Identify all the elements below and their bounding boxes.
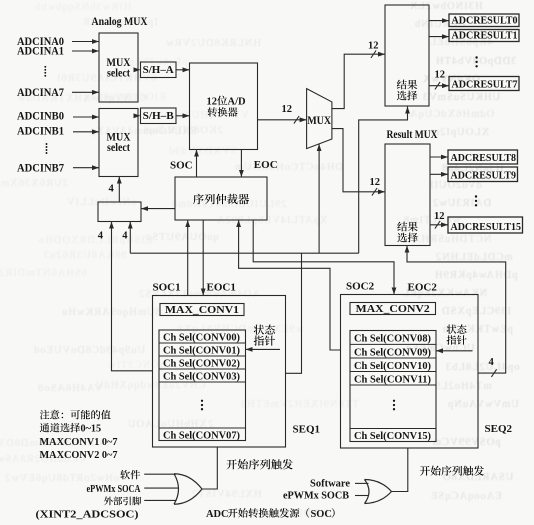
svg-text:ADCINA7: ADCINA7 bbox=[17, 87, 64, 99]
wire ePWMx SOCB input to OR gate 2 bbox=[355, 495, 369, 497]
label SEQ1 bbox=[293, 424, 321, 436]
label EOC2 bbox=[408, 282, 438, 294]
svg-text:ADCINA1: ADCINA1 bbox=[17, 46, 64, 58]
wire OR1 output to SEQ1 bbox=[202, 447, 217, 489]
wire S/H-B to converter bbox=[176, 113, 190, 118]
or-gate OR2 SEQ2 trigger bbox=[365, 480, 392, 504]
svg-text:EOC2: EOC2 bbox=[408, 282, 438, 294]
svg-text:SOC: SOC bbox=[311, 509, 332, 520]
wire H1 to channel select box with 4 bbox=[128, 222, 133, 254]
wire state pointer SEQ2 arrow bbox=[436, 348, 473, 353]
svg-text:SOC1: SOC1 bbox=[153, 282, 181, 294]
label SOC2 bbox=[346, 281, 375, 293]
wire result select to ADCRESULT1 bbox=[429, 34, 449, 39]
wire ADCINB1 input arrow bbox=[73, 129, 99, 134]
wire OR2 output to SEQ2 bbox=[392, 448, 408, 492]
svg-text:Ch Sel(CONV11): Ch Sel(CONV11) bbox=[354, 374, 431, 385]
label start sequence trigger SEQ1 bbox=[226, 459, 292, 469]
wire EOC1 arbiter to SEQ1 bbox=[201, 220, 206, 296]
svg-text:MAXCONV2 0~7: MAXCONV2 0~7 bbox=[40, 450, 118, 461]
label 12 bus to ADCRESULT7 bbox=[435, 70, 446, 81]
svg-text:ADCRESULT0: ADCRESULT0 bbox=[452, 15, 518, 27]
block analog MUX channel select register bbox=[98, 202, 141, 222]
label EOC bbox=[254, 159, 278, 171]
svg-text:4: 4 bbox=[122, 231, 128, 242]
svg-text:ADCINB0: ADCINB0 bbox=[17, 111, 64, 123]
svg-text:Ch Sel(CONV01): Ch Sel(CONV01) bbox=[163, 345, 240, 356]
wire ADCINB0 input arrow bbox=[73, 115, 99, 120]
svg-text:4: 4 bbox=[489, 357, 495, 368]
label Software trigger input SEQ2 bbox=[310, 478, 350, 489]
register ADCRESULT0 bbox=[449, 14, 519, 27]
svg-text:MAXCONV1 0~7: MAXCONV1 0~7 bbox=[40, 437, 118, 448]
block SEQ1 sequencer bbox=[153, 296, 286, 448]
row Ch Sel(CONV07) bbox=[163, 430, 240, 441]
wire result select to ADCRESULT8 bbox=[430, 155, 448, 160]
label 12 bus width converter output bbox=[282, 104, 293, 115]
wire SEQ1 left to channel select box with 4 bbox=[109, 222, 152, 371]
svg-text:Ch Sel(CONV03): Ch Sel(CONV03) bbox=[163, 371, 240, 382]
register ADCRESULT1 bbox=[449, 30, 519, 42]
dots result registers 8-15 ellipsis bbox=[475, 195, 477, 206]
svg-text:ePWMx SOCB: ePWMx SOCB bbox=[283, 491, 349, 502]
wire SEQ2 pointer to result select 2 with 4 bbox=[405, 246, 506, 377]
input label ADCINB1 bbox=[17, 126, 64, 138]
svg-text:Ch Sel(CONV08): Ch Sel(CONV08) bbox=[354, 334, 431, 345]
input label ADCINA7 bbox=[17, 87, 64, 99]
block result select 1 bbox=[385, 5, 429, 106]
svg-text:12: 12 bbox=[368, 41, 379, 52]
svg-text:4: 4 bbox=[109, 184, 115, 195]
register MAX_CONV1 bbox=[160, 304, 244, 317]
svg-text:Ch Sel(CONV10): Ch Sel(CONV10) bbox=[354, 361, 431, 372]
svg-text:Result MUX: Result MUX bbox=[387, 129, 439, 141]
svg-text:ADCRESULT1: ADCRESULT1 bbox=[452, 30, 518, 42]
note possible values bbox=[40, 410, 111, 420]
svg-text:SEQ2: SEQ2 bbox=[485, 423, 513, 435]
wire S/H-A to converter bbox=[176, 67, 190, 72]
wire result select to ADCRESULT0 bbox=[429, 18, 449, 23]
row Ch Sel(CONV11) bbox=[354, 374, 431, 385]
label state pointer SEQ1 bbox=[254, 325, 275, 346]
label SOC bbox=[170, 160, 193, 172]
label 12 bus to result select 2 bbox=[370, 177, 381, 188]
register ADCRESULT7 bbox=[449, 77, 519, 91]
wire channel select bus H1 bbox=[130, 252, 358, 254]
svg-text:EOC: EOC bbox=[254, 159, 278, 171]
svg-text:MUX: MUX bbox=[307, 115, 332, 127]
label ePWMx SOCB trigger input bbox=[283, 491, 349, 502]
dots SEQ2 channel rows ellipsis bbox=[393, 400, 395, 411]
svg-text:Software: Software bbox=[310, 478, 350, 489]
svg-text:ePWMx SOCA: ePWMx SOCA bbox=[87, 484, 142, 495]
wire ADCINB7 input arrow bbox=[73, 165, 99, 170]
row Ch Sel(CONV10) bbox=[354, 361, 431, 372]
svg-text:S/H–B: S/H–B bbox=[143, 111, 174, 122]
wire ADCINA7 input arrow bbox=[72, 90, 99, 95]
wire MUX select A to S/H-A arrow bbox=[134, 67, 141, 72]
block S/H-B sample and hold bbox=[141, 108, 177, 124]
svg-text:ADCRESULT7: ADCRESULT7 bbox=[452, 79, 518, 91]
block channel select table SEQ1 bbox=[159, 330, 246, 441]
svg-text:select: select bbox=[107, 68, 130, 80]
svg-text:Ch Sel(CONV15): Ch Sel(CONV15) bbox=[354, 431, 431, 442]
block SEQ2 sequencer bbox=[341, 295, 479, 449]
svg-text:Ch Sel(CONV07): Ch Sel(CONV07) bbox=[163, 430, 240, 441]
label XINT2_ADCSOC pin name bbox=[36, 510, 139, 521]
label SEQ2 bbox=[485, 423, 513, 435]
label state pointer SEQ2 bbox=[447, 324, 467, 344]
block S/H-A sample and hold bbox=[141, 62, 177, 78]
wire arbiter to channel select box arrow bbox=[141, 206, 175, 211]
wire result select to ADCRESULT9 bbox=[430, 172, 448, 177]
register MAX_CONV2 bbox=[350, 303, 436, 316]
wire software input to OR gate 1 bbox=[144, 473, 176, 475]
svg-text:SEQ1: SEQ1 bbox=[293, 424, 321, 436]
svg-text:A/D: A/D bbox=[228, 97, 247, 108]
wire MUX to result select 1 with 12 bus bbox=[332, 50, 385, 108]
svg-text:ADCRESULT8: ADCRESULT8 bbox=[451, 152, 517, 164]
wire SOC1 SEQ1 to arbiter bbox=[185, 220, 190, 296]
label Result MUX title bbox=[387, 129, 439, 141]
svg-text:ADCINB7: ADCINB7 bbox=[17, 162, 64, 174]
label start sequence trigger SEQ2 bbox=[420, 466, 484, 476]
svg-text:SOC: SOC bbox=[170, 160, 193, 172]
note channel select range bbox=[40, 423, 101, 435]
note MAXCONV2 range bbox=[40, 450, 118, 461]
input label ADCINB0 bbox=[17, 111, 64, 123]
svg-text:12: 12 bbox=[434, 211, 445, 222]
wire MUX select B to S/H-B arrow bbox=[134, 113, 141, 118]
register ADCRESULT9 bbox=[448, 167, 518, 182]
label 4 bus right into channel select box bbox=[122, 231, 128, 242]
wire MUX to result select 2 with 12 bus bbox=[332, 129, 385, 196]
dots SEQ1 channel rows ellipsis bbox=[201, 400, 203, 411]
block result select 2 bbox=[385, 144, 430, 246]
block MUX select A bbox=[99, 33, 138, 102]
wire EOC2 arbiter to SEQ2 bbox=[253, 220, 396, 295]
svg-text:MAX_CONV1: MAX_CONV1 bbox=[165, 305, 239, 316]
label 4 bus SEQ2 pointer bbox=[489, 357, 495, 368]
register ADCRESULT15 bbox=[448, 217, 523, 233]
wire H1 up to result select 1 bbox=[359, 107, 410, 254]
register ADCRESULT8 bbox=[448, 150, 518, 164]
wire converter 12-bit output to result MUX bbox=[258, 116, 307, 124]
row Ch Sel(CONV09) bbox=[354, 347, 431, 358]
dots analog A inputs ellipsis bbox=[44, 66, 46, 77]
svg-text:Ch Sel(CONV00): Ch Sel(CONV00) bbox=[163, 332, 240, 343]
label 12 bus to ADCRESULT15 bbox=[434, 211, 445, 222]
label external pin trigger input bbox=[104, 497, 141, 506]
svg-text:Ch Sel(CONV02): Ch Sel(CONV02) bbox=[163, 358, 240, 369]
dots analog B inputs ellipsis bbox=[46, 143, 48, 154]
dots result registers 0-7 ellipsis bbox=[475, 56, 477, 67]
row Ch Sel(CONV15) bbox=[354, 431, 431, 442]
svg-text:4: 4 bbox=[98, 231, 104, 242]
wire channel select to MUX select input bbox=[317, 144, 322, 253]
svg-text:Ch Sel(CONV09): Ch Sel(CONV09) bbox=[354, 347, 431, 358]
svg-text:select: select bbox=[107, 142, 130, 154]
svg-text:ADC: ADC bbox=[206, 509, 229, 520]
svg-text:12: 12 bbox=[282, 104, 293, 115]
svg-text:Analog MUX: Analog MUX bbox=[92, 14, 148, 28]
row Ch Sel(CONV03) bbox=[163, 371, 240, 382]
input label ADCINA1 bbox=[17, 46, 64, 58]
wire result select to ADCRESULT15 bbox=[430, 221, 448, 229]
label Analog MUX title bbox=[92, 14, 148, 28]
wire channel select box to MUX select B bbox=[117, 177, 122, 203]
svg-text:S/H–A: S/H–A bbox=[143, 65, 175, 76]
svg-text:0~15: 0~15 bbox=[81, 424, 102, 435]
or-gate OR1 SEQ1 trigger bbox=[174, 474, 202, 505]
svg-text:MAX_CONV2: MAX_CONV2 bbox=[356, 304, 430, 315]
wire Software input to OR gate 2 bbox=[355, 482, 369, 484]
wire external pin input to OR gate 1 bbox=[144, 499, 176, 501]
svg-text:SOC2: SOC2 bbox=[346, 281, 375, 293]
svg-text:EOC1: EOC1 bbox=[207, 282, 236, 294]
block channel select table SEQ2 bbox=[350, 331, 436, 442]
label 4 bus left into channel select box bbox=[98, 231, 104, 242]
wire state pointer SEQ1 arrow bbox=[246, 347, 281, 352]
wire ePWMx SOCA input to OR gate 1 bbox=[144, 487, 179, 489]
label software trigger input bbox=[120, 470, 140, 479]
svg-text:12: 12 bbox=[435, 70, 446, 81]
label ADC start of conversion trigger source SOC bbox=[206, 508, 335, 520]
input label ADCINB7 bbox=[17, 162, 64, 174]
block sequencer arbiter bbox=[175, 177, 267, 220]
block result MUX trapezoid bbox=[307, 89, 332, 149]
wire ADCINA1 input arrow bbox=[72, 49, 99, 54]
label EOC1 bbox=[207, 282, 236, 294]
input label ADCINA0 bbox=[17, 36, 64, 48]
svg-text:ADCRESULT9: ADCRESULT9 bbox=[451, 170, 517, 182]
block MUX select B bbox=[99, 109, 138, 177]
svg-text:12: 12 bbox=[370, 177, 381, 188]
row Ch Sel(CONV08) bbox=[354, 334, 431, 345]
wire SOC2 SEQ2 to arbiter bbox=[236, 220, 340, 350]
svg-text:12: 12 bbox=[207, 97, 218, 108]
wire ADCINA0 input arrow bbox=[72, 39, 99, 44]
row Ch Sel(CONV01) bbox=[163, 345, 240, 356]
wire result select to ADCRESULT7 bbox=[429, 82, 449, 90]
label 12 bus to result select 1 bbox=[368, 41, 379, 52]
svg-text:(XINT2_ADCSOC): (XINT2_ADCSOC) bbox=[36, 510, 139, 521]
svg-text:ADCRESULT15: ADCRESULT15 bbox=[451, 221, 522, 233]
row Ch Sel(CONV00) bbox=[163, 332, 240, 343]
wire EOC converter to arbiter bbox=[239, 150, 244, 178]
label 4 bus width to MUX select bbox=[109, 184, 115, 195]
note MAXCONV1 range bbox=[40, 437, 118, 448]
wire SEQ1 pointer up to H1 bbox=[286, 253, 302, 373]
svg-text:ADCINB1: ADCINB1 bbox=[17, 126, 64, 138]
label SOC1 bbox=[153, 282, 181, 294]
label ePWMx SOCA trigger input bbox=[87, 484, 142, 495]
block 12-bit A/D converter U1 bbox=[190, 63, 258, 150]
row Ch Sel(CONV02) bbox=[163, 358, 240, 369]
wire SOC arbiter to converter bbox=[194, 150, 199, 178]
